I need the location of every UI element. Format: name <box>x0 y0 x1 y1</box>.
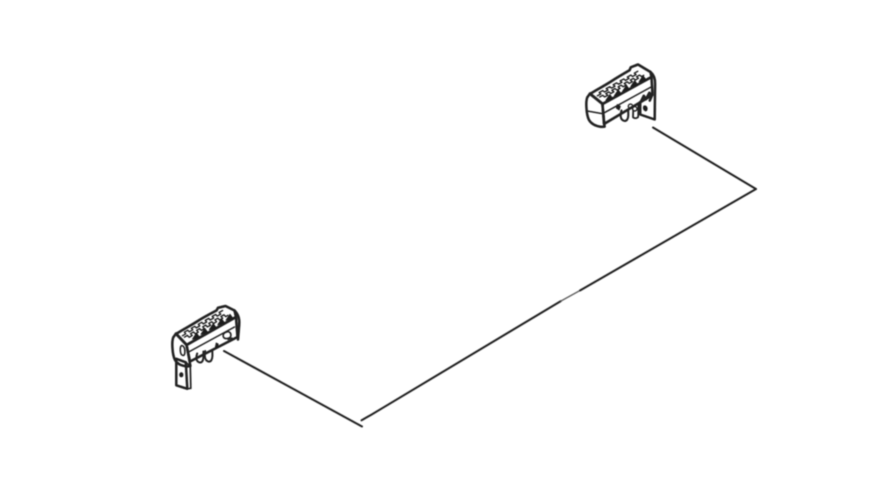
A: dark screw head <box>616 104 620 110</box>
A: clip wedge 5 <box>639 76 646 82</box>
long diagonal pointer line lower segment <box>362 301 562 420</box>
A: front face mid rib <box>603 87 652 114</box>
B: clip wedge 4 <box>218 319 225 325</box>
A: mounting plate hole <box>643 106 647 112</box>
B: lower hook tab right <box>205 350 213 362</box>
A: right end and mounting plate silhouette <box>640 72 655 120</box>
A: front face outline <box>603 77 653 124</box>
B: end cap slot <box>180 346 185 356</box>
A: clamp bolt rear ring <box>633 107 637 111</box>
A: end cap mid rib <box>587 111 603 114</box>
A: top face serration row front <box>600 75 644 97</box>
B: front face outline <box>187 317 238 362</box>
B: clip wedge 5 <box>226 314 233 320</box>
long diagonal pointer line faint break <box>561 291 580 302</box>
bracket assembly A (upper right) <box>586 65 655 127</box>
A: shadow notch between rail and plate <box>641 93 652 102</box>
B: leg bolt hole <box>179 372 183 377</box>
A: clamp bolt front ring <box>628 104 632 108</box>
B: leg side thickness edge <box>186 362 191 389</box>
leader line from bracket A to junction <box>653 128 756 190</box>
A: clip wedge 3 <box>623 86 630 92</box>
long diagonal pointer line upper segment <box>580 189 756 291</box>
B: right end edge <box>235 311 240 340</box>
A: left end cap <box>586 94 604 127</box>
B: lower hook tab left <box>196 352 203 363</box>
A: lower hook tab <box>621 110 629 121</box>
B: clip wedge 1 <box>193 333 200 339</box>
B: top face serration row back <box>182 311 222 336</box>
A: top face serration row back <box>597 71 637 96</box>
A: top face outline <box>590 65 652 105</box>
leader line from bracket B to junction <box>224 351 362 427</box>
B: front slot detail <box>223 332 231 339</box>
B: left end cap <box>172 334 190 367</box>
B: top face serration row front <box>184 315 228 338</box>
B: clip wedge 3 <box>209 324 216 330</box>
bracket assembly B (lower left) <box>172 306 239 389</box>
A: clip wedge 1 <box>606 95 613 101</box>
B: clip wedge 2 <box>201 329 208 335</box>
A: clip wedge 4 <box>631 81 638 87</box>
B: slot under-mark <box>228 338 232 340</box>
B: mounting leg strap <box>176 359 187 389</box>
B: front face dark notch <box>215 343 218 349</box>
B: front face mid rib <box>189 327 234 352</box>
A: clamp tab <box>633 105 638 118</box>
A: clip wedge 2 <box>614 90 621 96</box>
B: top face outline <box>176 306 236 345</box>
